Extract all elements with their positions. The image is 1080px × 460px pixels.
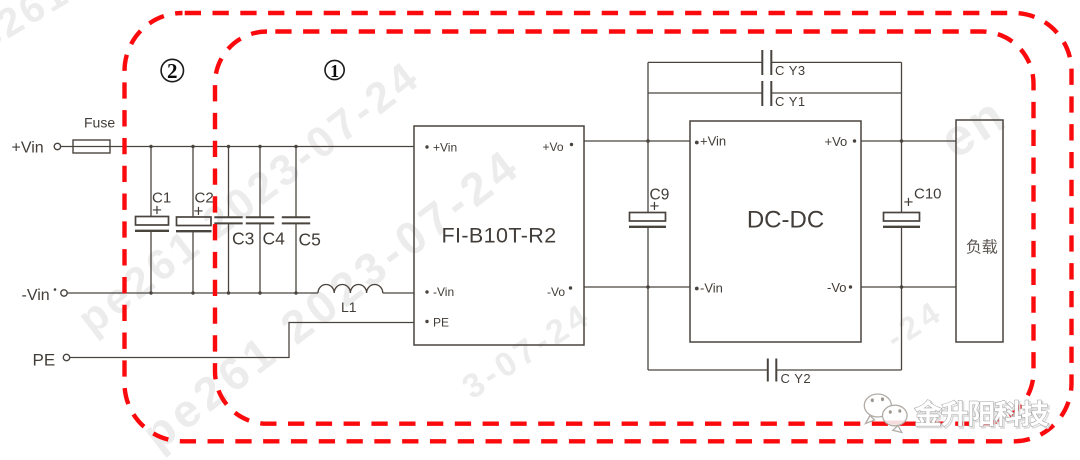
svg-text:+Vo: +Vo — [543, 140, 564, 154]
svg-text:L1: L1 — [341, 299, 357, 315]
svg-text:+: + — [904, 193, 914, 212]
svg-text:PE: PE — [433, 316, 449, 330]
svg-text:2: 2 — [167, 59, 178, 83]
svg-text:+: + — [152, 201, 162, 220]
svg-text:FI-B10T-R2: FI-B10T-R2 — [441, 224, 556, 248]
svg-text:pe261 2023-07-24: pe261 2023-07-24 — [132, 138, 530, 460]
svg-text:+Vo: +Vo — [825, 134, 848, 149]
svg-text:C Y2: C Y2 — [781, 371, 812, 386]
svg-text:C Y1: C Y1 — [775, 94, 806, 109]
svg-text:+: + — [650, 197, 660, 216]
svg-text:C10: C10 — [914, 186, 942, 203]
svg-text:PE: PE — [33, 351, 56, 370]
svg-text:+: + — [194, 202, 204, 221]
svg-text:-Vin: -Vin — [433, 285, 454, 299]
svg-text:-Vin: -Vin — [22, 287, 50, 304]
svg-text:-Vo: -Vo — [827, 280, 847, 295]
svg-text:-Vo: -Vo — [547, 285, 565, 299]
svg-text:C Y3: C Y3 — [775, 63, 806, 78]
svg-text:en: en — [930, 85, 1018, 170]
svg-text:C5: C5 — [299, 230, 321, 250]
svg-text:C4: C4 — [263, 229, 286, 249]
svg-text:e261: e261 — [0, 0, 77, 60]
svg-text:3-07-24: 3-07-24 — [456, 296, 598, 407]
svg-text:C3: C3 — [232, 229, 254, 249]
svg-text:-24: -24 — [879, 292, 950, 356]
svg-text:+Vin: +Vin — [700, 134, 726, 149]
svg-text:1: 1 — [330, 61, 339, 81]
svg-text:+Vin: +Vin — [12, 140, 44, 157]
svg-text:Fuse: Fuse — [84, 115, 115, 131]
svg-text:DC-DC: DC-DC — [747, 207, 824, 234]
svg-text:-Vin: -Vin — [700, 281, 723, 296]
svg-text:+Vin: +Vin — [433, 141, 457, 155]
